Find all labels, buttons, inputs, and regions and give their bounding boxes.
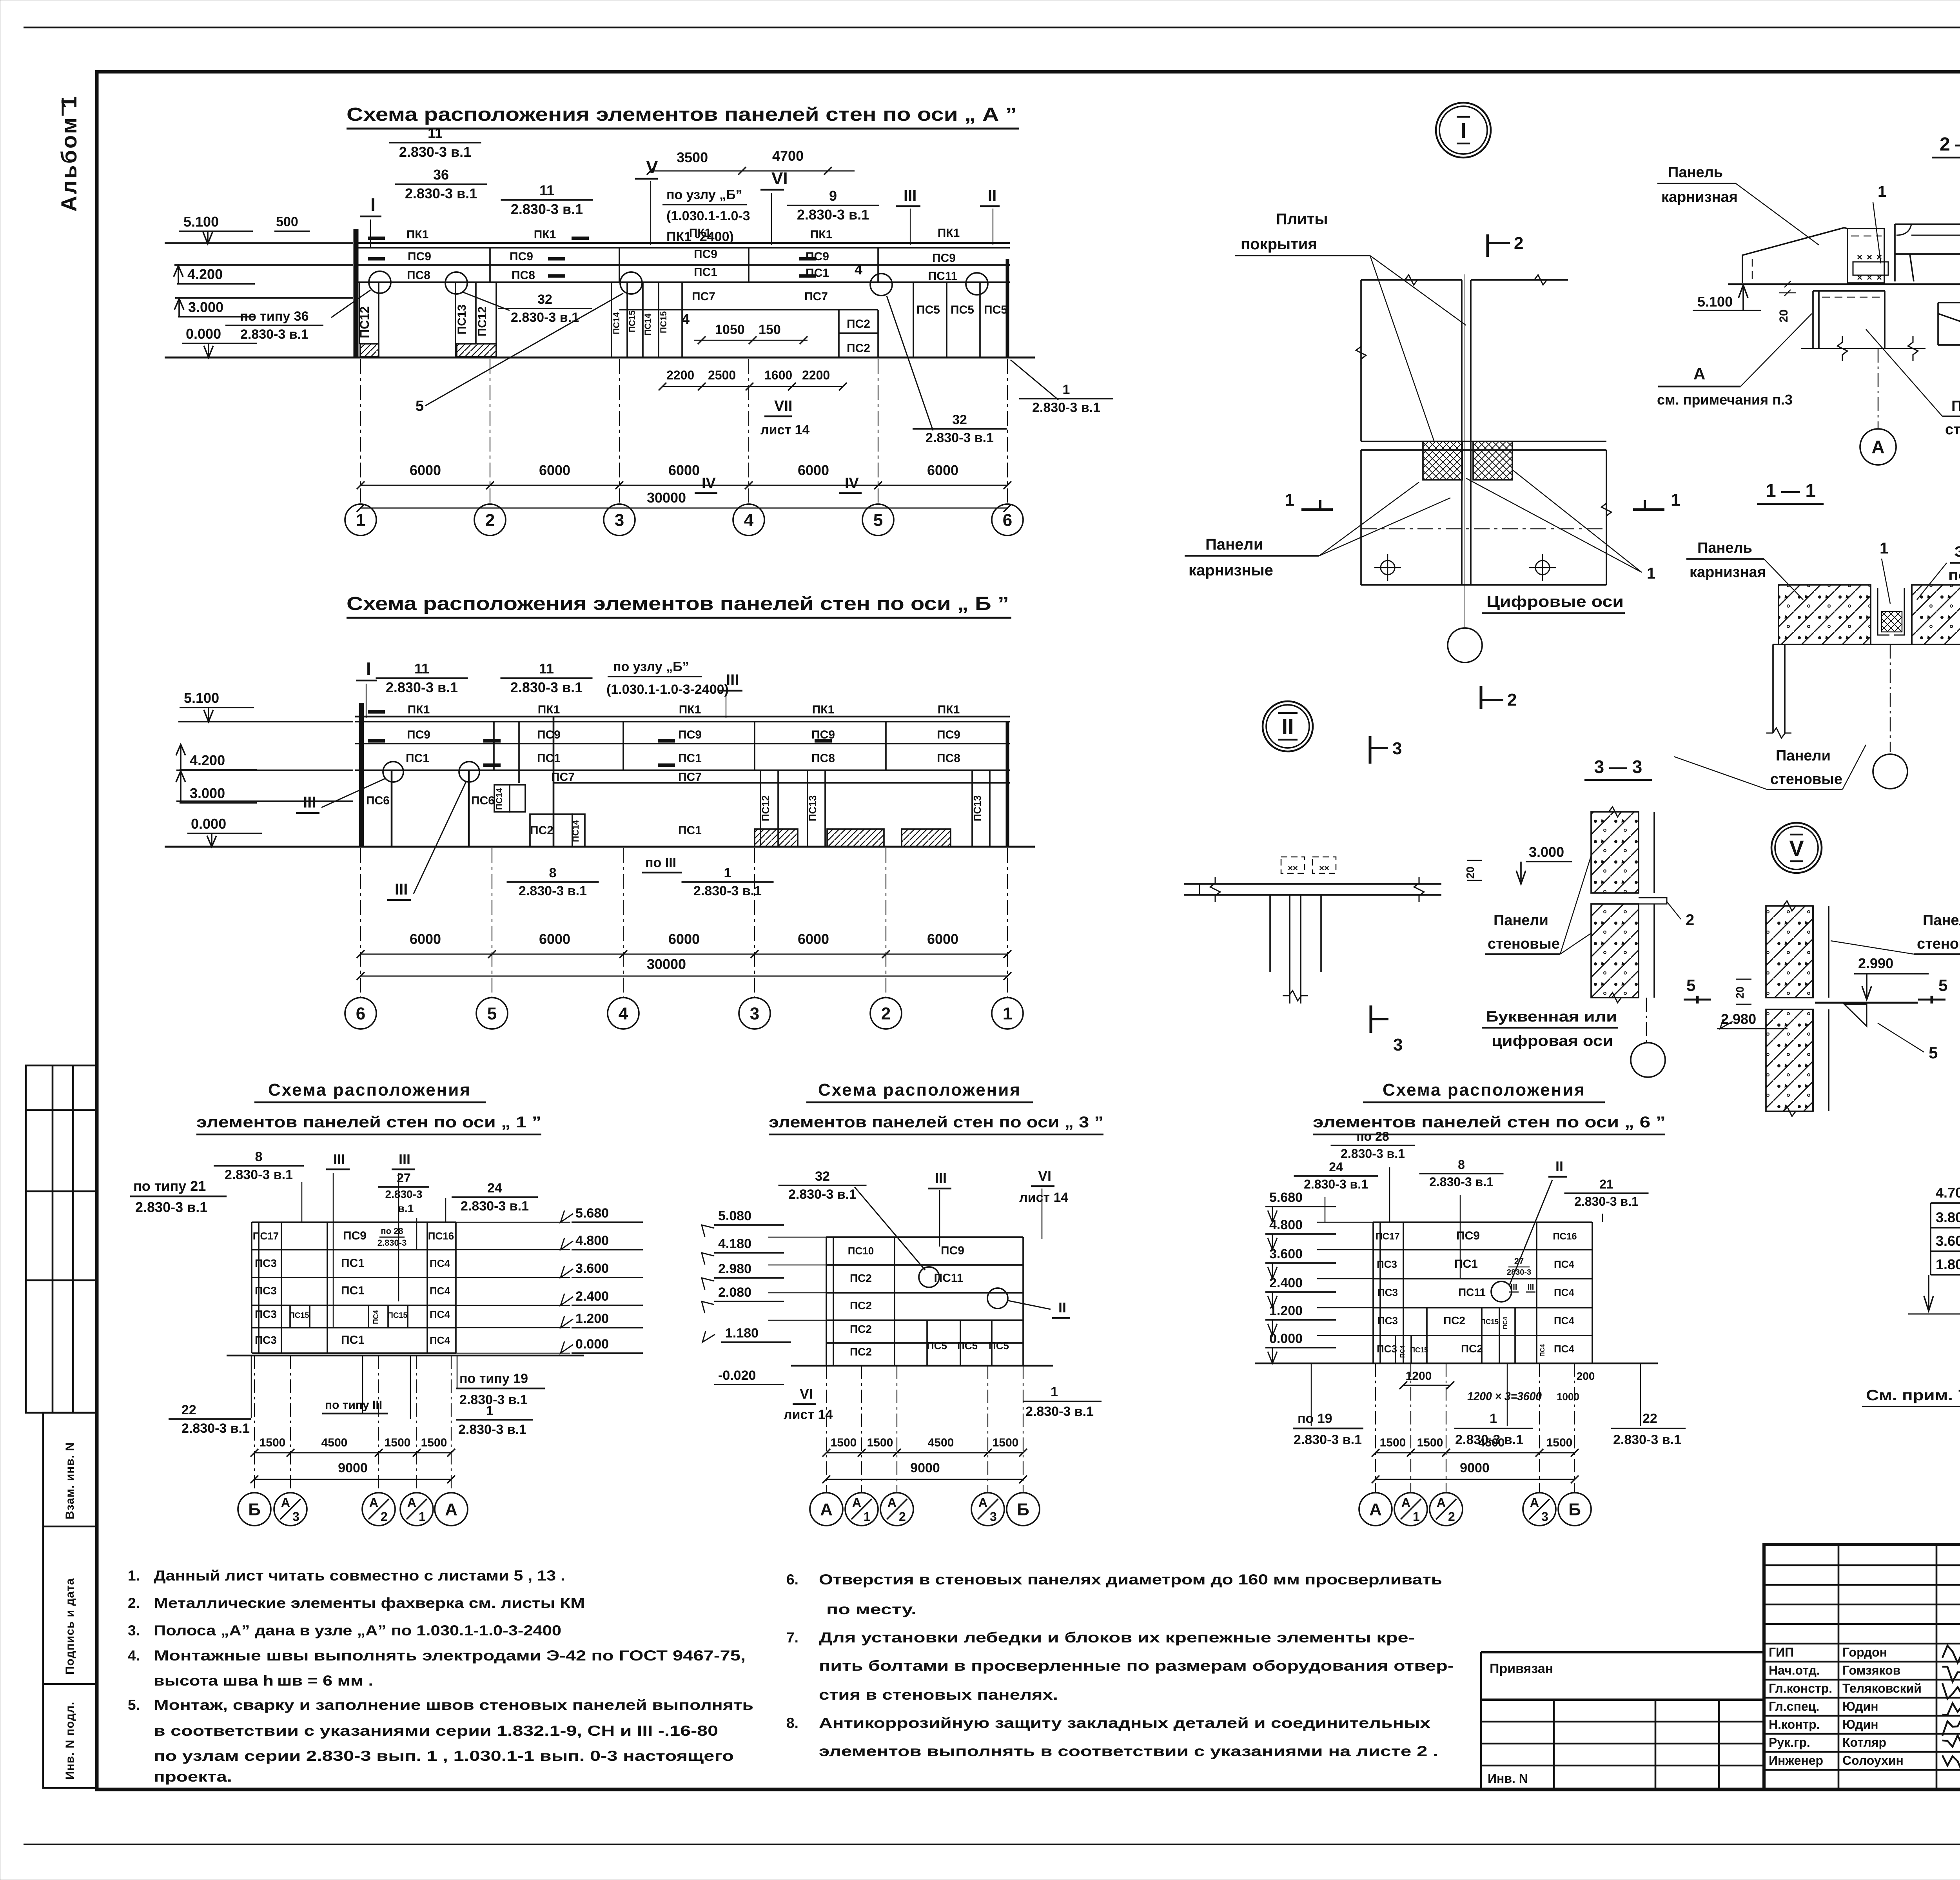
- svg-text:1: 1: [1671, 490, 1680, 510]
- svg-text:стеновые: стеновые: [1488, 936, 1560, 952]
- svg-text:1050: 1050: [715, 322, 745, 337]
- svg-text:ПС9: ПС9: [806, 250, 829, 263]
- svg-text:ПК1: ПК1: [938, 227, 960, 240]
- svg-text:4.800: 4.800: [575, 1233, 609, 1248]
- svg-text:ПС4: ПС4: [1539, 1344, 1546, 1357]
- svg-text:ПС2: ПС2: [850, 1299, 872, 1312]
- svg-text:×: ×: [1857, 252, 1862, 263]
- svg-text:ПС3: ПС3: [255, 1308, 277, 1320]
- svg-text:ПС7: ПС7: [551, 771, 575, 784]
- svg-text:32: 32: [537, 292, 552, 307]
- svg-text:высота шва h шв = 6 мм .: высота шва h шв = 6 мм .: [154, 1673, 373, 1689]
- svg-text:ПК1 -2400): ПК1 -2400): [666, 229, 734, 244]
- svg-text:Инженер: Инженер: [1769, 1753, 1823, 1767]
- svg-text:ПС12: ПС12: [760, 795, 771, 821]
- svg-text:по 28: по 28: [381, 1226, 403, 1236]
- svg-text:ПС12: ПС12: [358, 306, 372, 338]
- svg-text:ПС15: ПС15: [659, 311, 668, 333]
- svg-text:1.: 1.: [128, 1568, 140, 1584]
- svg-text:ПС12: ПС12: [476, 307, 489, 337]
- svg-text:8: 8: [1458, 1158, 1465, 1172]
- svg-text:А: А: [978, 1495, 987, 1510]
- svg-text:6000: 6000: [927, 462, 958, 478]
- svg-text:ПС5: ПС5: [951, 303, 974, 316]
- svg-text:II: II: [1281, 714, 1294, 739]
- svg-text:IV: IV: [702, 475, 716, 492]
- svg-text:ПС15: ПС15: [1410, 1346, 1428, 1354]
- svg-text:36: 36: [433, 167, 449, 183]
- svg-text:в соответствии с указаниями: в соответствии с указаниями серии 1.832.…: [154, 1723, 718, 1739]
- svg-text:ПС8: ПС8: [407, 269, 430, 282]
- svg-text:А: А: [281, 1495, 290, 1510]
- svg-text:VI: VI: [771, 169, 788, 188]
- svg-text:ПК1: ПК1: [679, 703, 701, 716]
- svg-text:24: 24: [487, 1181, 502, 1196]
- svg-text:ПС1: ПС1: [341, 1257, 365, 1270]
- svg-text:5.100: 5.100: [183, 214, 219, 230]
- svg-text:ПС17: ПС17: [253, 1230, 279, 1242]
- svg-text:1: 1: [1490, 1411, 1497, 1426]
- svg-text:Схема расположения: Схема расположения: [818, 1080, 1021, 1100]
- svg-text:ПС3: ПС3: [1377, 1343, 1397, 1355]
- svg-text:5.100: 5.100: [184, 690, 219, 706]
- svg-text:2.830-3 в.1: 2.830-3 в.1: [461, 1199, 529, 1214]
- svg-text:2.830-3 в.1: 2.830-3 в.1: [1025, 1404, 1094, 1419]
- svg-text:ПС7: ПС7: [692, 290, 715, 303]
- svg-text:стеновые: стеновые: [1770, 771, 1842, 788]
- svg-text:6000: 6000: [798, 462, 829, 478]
- svg-text:ПС4: ПС4: [430, 1285, 450, 1297]
- svg-text:см. примечания п.3: см. примечания п.3: [1657, 392, 1793, 408]
- svg-text:ПС11: ПС11: [1458, 1286, 1486, 1298]
- svg-text:Для установки лебедки и бл: Для установки лебедки и блоков их крепеж…: [819, 1630, 1415, 1646]
- svg-text:А: А: [852, 1495, 861, 1510]
- svg-text:2200: 2200: [666, 368, 694, 382]
- svg-text:ПС9: ПС9: [941, 1244, 964, 1257]
- svg-text:3: 3: [1393, 1035, 1403, 1054]
- svg-text:элементов панелей стен по оси: элементов панелей стен по оси „ 1 ”: [196, 1114, 541, 1131]
- svg-text:А: А: [369, 1495, 378, 1510]
- svg-text:1: 1: [1051, 1385, 1058, 1399]
- svg-text:2.830-3 в.1: 2.830-3 в.1: [458, 1422, 526, 1437]
- svg-text:2.830-3 в.1: 2.830-3 в.1: [135, 1199, 207, 1215]
- svg-text:11: 11: [414, 661, 429, 677]
- svg-text:4: 4: [744, 510, 754, 530]
- svg-text:ПС13: ПС13: [807, 795, 818, 821]
- svg-text:III: III: [904, 187, 916, 204]
- svg-text:2: 2: [1686, 911, 1694, 929]
- svg-text:ПС2: ПС2: [530, 824, 554, 837]
- svg-text:карнизная: карнизная: [1661, 189, 1738, 205]
- svg-text:Привязан: Привязан: [1490, 1661, 1553, 1676]
- svg-text:8: 8: [549, 866, 557, 880]
- svg-text:2.830-3 в.1: 2.830-3 в.1: [225, 1167, 293, 1182]
- svg-text:ПС2: ПС2: [850, 1272, 872, 1284]
- svg-text:3: 3: [990, 1510, 997, 1524]
- svg-text:11: 11: [539, 182, 554, 198]
- svg-text:2.830-3 в.1: 2.830-3 в.1: [240, 327, 309, 342]
- svg-text:по 19: по 19: [1298, 1411, 1332, 1426]
- svg-text:ПС3: ПС3: [255, 1257, 277, 1269]
- svg-text:2.830-3 в.1: 2.830-3 в.1: [181, 1421, 250, 1436]
- svg-text:II: II: [1555, 1158, 1563, 1174]
- svg-text:Юдин: Юдин: [1842, 1699, 1878, 1713]
- svg-text:30000: 30000: [647, 490, 686, 506]
- svg-text:II: II: [1058, 1299, 1066, 1316]
- svg-text:Схема расположения: Схема расположения: [268, 1080, 471, 1100]
- svg-text:элементов выполнять в соотв: элементов выполнять в соответствии с ука…: [819, 1743, 1438, 1759]
- svg-text:1: 1: [419, 1510, 426, 1524]
- svg-text:6000: 6000: [798, 931, 829, 947]
- svg-text:(1.030.1-1.0-3-2400): (1.030.1-1.0-3-2400): [606, 682, 729, 697]
- svg-text:ПС1: ПС1: [406, 752, 429, 765]
- svg-text:4.180: 4.180: [718, 1236, 751, 1251]
- svg-text:ПС17: ПС17: [1376, 1231, 1399, 1242]
- svg-text:Нач.отд.: Нач.отд.: [1769, 1663, 1820, 1677]
- svg-text:1500: 1500: [385, 1436, 411, 1449]
- svg-text:4.700: 4.700: [1936, 1185, 1960, 1201]
- svg-text:1: 1: [356, 510, 365, 530]
- svg-text:3: 3: [1392, 739, 1402, 758]
- svg-text:ПС8: ПС8: [512, 269, 535, 282]
- svg-text:5: 5: [1686, 976, 1695, 994]
- svg-text:11: 11: [539, 661, 554, 677]
- svg-text:ПК1: ПК1: [407, 228, 429, 241]
- svg-text:ПС2: ПС2: [1443, 1314, 1465, 1327]
- svg-text:ПС15: ПС15: [387, 1311, 407, 1320]
- svg-text:ПС9: ПС9: [937, 728, 960, 741]
- svg-text:ПС3: ПС3: [1377, 1315, 1398, 1327]
- svg-text:ПС8: ПС8: [937, 752, 960, 765]
- svg-text:ПС11: ПС11: [928, 270, 958, 283]
- svg-text:-0.020: -0.020: [718, 1368, 756, 1383]
- svg-text:4.200: 4.200: [190, 752, 225, 768]
- svg-text:по узлу „Б”: по узлу „Б”: [666, 187, 742, 202]
- svg-text:3.: 3.: [128, 1622, 140, 1639]
- svg-text:ПС14: ПС14: [643, 313, 653, 336]
- svg-text:ПС5: ПС5: [916, 303, 940, 316]
- svg-text:по III: по III: [645, 855, 676, 870]
- svg-text:6000: 6000: [539, 931, 570, 947]
- svg-text:5: 5: [487, 1004, 497, 1023]
- svg-text:2.830-3 в.1: 2.830-3 в.1: [926, 430, 994, 445]
- svg-text:ПС14: ПС14: [612, 312, 621, 334]
- svg-text:2: 2: [485, 510, 495, 530]
- svg-text:2: 2: [1514, 234, 1523, 253]
- svg-text:А: А: [1530, 1495, 1539, 1510]
- svg-text:3.800: 3.800: [1936, 1209, 1960, 1225]
- svg-text:1200 × 3=3600: 1200 × 3=3600: [1467, 1390, 1542, 1403]
- svg-text:2.: 2.: [128, 1595, 140, 1611]
- svg-text:по типу 21: по типу 21: [133, 1178, 206, 1194]
- svg-text:ПС6: ПС6: [471, 794, 495, 807]
- svg-text:4: 4: [855, 261, 862, 278]
- svg-text:2: 2: [1507, 690, 1517, 710]
- svg-text:0.000: 0.000: [575, 1337, 609, 1352]
- svg-text:Юдин: Юдин: [1842, 1717, 1878, 1731]
- svg-text:6: 6: [1003, 510, 1012, 530]
- svg-text:2.830-3 в.1: 2.830-3 в.1: [399, 144, 471, 160]
- svg-text:ПС4: ПС4: [1554, 1258, 1574, 1270]
- svg-text:2830-3: 2830-3: [1507, 1268, 1531, 1277]
- svg-text:2.830-3 в.1: 2.830-3 в.1: [1294, 1432, 1362, 1447]
- svg-text:ПС16: ПС16: [428, 1230, 454, 1242]
- svg-text:150: 150: [759, 322, 781, 337]
- svg-text:Цифровые оси: Цифровые оси: [1486, 593, 1624, 610]
- svg-text:1500: 1500: [1380, 1436, 1406, 1449]
- svg-text:Панель: Панель: [1668, 164, 1723, 181]
- svg-text:ПС1: ПС1: [806, 267, 829, 279]
- svg-text:Гл.спец.: Гл.спец.: [1769, 1699, 1819, 1713]
- svg-text:ПС16: ПС16: [1553, 1231, 1577, 1242]
- svg-text:III: III: [333, 1151, 345, 1167]
- svg-text:2.830-3 в.1: 2.830-3 в.1: [386, 679, 458, 695]
- svg-text:3.000: 3.000: [190, 785, 225, 801]
- svg-text:III: III: [395, 881, 408, 898]
- svg-text:ПС9: ПС9: [932, 252, 956, 265]
- svg-text:1: 1: [1063, 382, 1070, 397]
- svg-text:Инв. N: Инв. N: [1488, 1771, 1528, 1786]
- svg-text:Гордон: Гордон: [1842, 1645, 1887, 1659]
- svg-text:6.: 6.: [786, 1572, 799, 1588]
- svg-text:ПС4: ПС4: [1502, 1317, 1509, 1329]
- svg-text:Монтаж, сварку и заполнение: Монтаж, сварку и заполнение швов стеновы…: [154, 1697, 753, 1713]
- svg-text:Металлические элементы фахве: Металлические элементы фахверка см. лист…: [154, 1595, 585, 1611]
- svg-text:6000: 6000: [927, 931, 958, 947]
- svg-text:ПС1: ПС1: [537, 752, 561, 765]
- svg-text:4500: 4500: [1479, 1436, 1505, 1449]
- svg-text:ПС14: ПС14: [494, 788, 504, 810]
- svg-text:32: 32: [815, 1169, 830, 1184]
- svg-text:1: 1: [1413, 1510, 1420, 1524]
- svg-text:20: 20: [1777, 309, 1790, 322]
- svg-text:1500: 1500: [867, 1436, 893, 1449]
- svg-text:2 — 2: 2 — 2: [1940, 134, 1960, 155]
- svg-text:ПС13: ПС13: [456, 305, 468, 335]
- svg-text:по типу III: по типу III: [325, 1399, 382, 1412]
- svg-text:2.830-3 в.1: 2.830-3 в.1: [1341, 1147, 1405, 1161]
- svg-text:3 — 3: 3 — 3: [1594, 757, 1642, 777]
- svg-text:32: 32: [952, 412, 967, 427]
- svg-text:ПС7: ПС7: [678, 771, 702, 784]
- svg-text:1: 1: [864, 1510, 871, 1524]
- svg-text:3500: 3500: [677, 149, 708, 165]
- svg-text:ПС1: ПС1: [678, 752, 702, 765]
- svg-text:ПК1: ПК1: [810, 228, 833, 241]
- svg-text:ПС14: ПС14: [571, 820, 581, 842]
- svg-text:1.800: 1.800: [1936, 1256, 1960, 1272]
- svg-text:Теляковский: Теляковский: [1842, 1681, 1922, 1695]
- svg-text:в.1: в.1: [398, 1202, 414, 1214]
- svg-text:3: 3: [1541, 1510, 1548, 1524]
- svg-text:Залить бетоном марки М150: Залить бетоном марки М150: [1954, 544, 1960, 560]
- svg-text:2: 2: [899, 1510, 906, 1524]
- svg-text:2: 2: [881, 1004, 891, 1023]
- svg-text:Схема расположения элементов п: Схема расположения элементов панелей сте…: [347, 593, 1009, 614]
- svg-text:цифровая оси: цифровая оси: [1492, 1033, 1613, 1049]
- svg-text:I: I: [370, 194, 376, 215]
- svg-text:ПС1: ПС1: [341, 1334, 365, 1346]
- svg-text:Плиты: Плиты: [1276, 211, 1328, 228]
- svg-text:лист 14: лист 14: [760, 423, 809, 437]
- svg-text:лист 14: лист 14: [1019, 1190, 1068, 1205]
- svg-text:ПС15: ПС15: [1481, 1318, 1499, 1326]
- svg-text:×: ×: [1857, 272, 1862, 283]
- svg-text:Антикоррозийную защиту закла: Антикоррозийную защиту закладных деталей…: [819, 1715, 1431, 1731]
- svg-text:пить болтами в просверленны: пить болтами в просверленные по размерам…: [819, 1658, 1454, 1674]
- svg-text:Б: Б: [1568, 1500, 1581, 1519]
- svg-text:Подпись и дата: Подпись и дата: [64, 1578, 76, 1675]
- svg-text:Н.контр.: Н.контр.: [1769, 1717, 1820, 1731]
- svg-text:11: 11: [428, 125, 443, 141]
- svg-text:5.680: 5.680: [575, 1206, 609, 1221]
- svg-text:4.: 4.: [128, 1648, 140, 1664]
- svg-text:5.080: 5.080: [718, 1209, 751, 1223]
- svg-text:стеновые: стеновые: [1917, 936, 1960, 952]
- svg-text:А: А: [407, 1495, 416, 1510]
- svg-text:ПС1: ПС1: [1454, 1258, 1478, 1270]
- svg-text:ПС4: ПС4: [1554, 1287, 1574, 1298]
- svg-text:ПК1: ПК1: [938, 703, 960, 716]
- svg-text:ПС9: ПС9: [678, 728, 702, 741]
- svg-text:ПС4: ПС4: [430, 1258, 450, 1269]
- svg-text:ПК1: ПК1: [538, 703, 560, 716]
- svg-text:Данный лист читать совместно с: Данный лист читать совместно с листами 5…: [154, 1568, 565, 1584]
- svg-text:Панели: Панели: [1494, 912, 1548, 929]
- svg-text:ПС4: ПС4: [1554, 1315, 1574, 1327]
- svg-text:1500: 1500: [1546, 1436, 1573, 1449]
- svg-text:5: 5: [416, 398, 424, 414]
- svg-text:II: II: [988, 187, 996, 204]
- svg-text:ПС9: ПС9: [408, 250, 431, 263]
- svg-text:А: А: [887, 1495, 897, 1510]
- svg-text:ПС1: ПС1: [341, 1284, 365, 1297]
- svg-text:1: 1: [486, 1403, 494, 1418]
- svg-text:ПС9: ПС9: [510, 250, 533, 263]
- svg-text:ПС5: ПС5: [957, 1340, 978, 1352]
- svg-text:2.830-3 в.1: 2.830-3 в.1: [511, 201, 583, 217]
- svg-text:ПС4: ПС4: [1399, 1345, 1406, 1358]
- svg-text:А: А: [1401, 1495, 1410, 1510]
- svg-text:4: 4: [682, 311, 690, 327]
- svg-text:6000: 6000: [410, 931, 441, 947]
- svg-text:ПС7: ПС7: [804, 290, 828, 303]
- svg-text:4: 4: [619, 1004, 628, 1023]
- svg-text:по месту.: по месту.: [826, 1601, 916, 1617]
- svg-text:2.830-3 в.1: 2.830-3 в.1: [1429, 1175, 1494, 1189]
- svg-text:6000: 6000: [539, 462, 570, 478]
- svg-text:20: 20: [1464, 866, 1476, 878]
- svg-text:1500: 1500: [1417, 1436, 1443, 1449]
- svg-text:лист 14: лист 14: [784, 1407, 833, 1422]
- svg-text:2.830-3 в.1: 2.830-3 в.1: [1574, 1194, 1639, 1209]
- svg-text:0.000: 0.000: [186, 326, 221, 342]
- svg-text:4500: 4500: [321, 1436, 348, 1449]
- svg-text:Инв. N подл.: Инв. N подл.: [64, 1702, 76, 1780]
- svg-text:4.200: 4.200: [187, 266, 223, 282]
- svg-text:ПС9: ПС9: [343, 1229, 367, 1242]
- svg-text:А: А: [820, 1500, 833, 1519]
- svg-text:2.830-3 в.1: 2.830-3 в.1: [797, 207, 869, 223]
- svg-text:1 — 1: 1 — 1: [1766, 481, 1816, 501]
- svg-text:9000: 9000: [338, 1461, 368, 1475]
- svg-text:по 28: по 28: [1356, 1129, 1389, 1143]
- svg-text:××: ××: [1319, 863, 1329, 873]
- svg-text:22: 22: [181, 1403, 196, 1417]
- svg-text:6000: 6000: [410, 462, 441, 478]
- svg-text:3: 3: [615, 510, 624, 530]
- svg-text:5: 5: [1929, 1043, 1938, 1062]
- svg-text:3: 3: [292, 1510, 299, 1524]
- svg-text:I: I: [1460, 118, 1466, 143]
- svg-text:Панели: Панели: [1205, 536, 1263, 553]
- svg-text:2.830-3 в.1: 2.830-3 в.1: [1613, 1432, 1681, 1447]
- svg-text:6: 6: [356, 1004, 365, 1023]
- svg-text:ПС8: ПС8: [811, 752, 835, 765]
- svg-text:Б: Б: [1017, 1500, 1029, 1519]
- svg-text:А: А: [1369, 1500, 1382, 1519]
- svg-text:2.830-3 в.1: 2.830-3 в.1: [405, 185, 477, 201]
- svg-text:4.800: 4.800: [1269, 1218, 1303, 1232]
- svg-text:×: ×: [1867, 252, 1872, 263]
- svg-text:III: III: [726, 671, 739, 689]
- svg-text:5: 5: [873, 510, 883, 530]
- svg-text:стия в стеновых панелях.: стия в стеновых панелях.: [819, 1687, 1058, 1703]
- svg-text:по узлам серии 2.830-3 вып: по узлам серии 2.830-3 вып. 1 , 1.030.1-…: [154, 1748, 734, 1764]
- svg-text:ГИП: ГИП: [1769, 1645, 1794, 1659]
- svg-text:1000: 1000: [1557, 1391, 1579, 1403]
- svg-text:6000: 6000: [668, 462, 700, 478]
- svg-text:1: 1: [1003, 1004, 1012, 1023]
- svg-text:0.000: 0.000: [191, 816, 226, 832]
- svg-text:ПК1: ПК1: [812, 703, 835, 716]
- svg-text:А: А: [1871, 437, 1884, 457]
- svg-text:3.600: 3.600: [575, 1261, 609, 1276]
- svg-text:1500: 1500: [421, 1436, 447, 1449]
- svg-text:ПС3: ПС3: [1377, 1258, 1397, 1270]
- svg-text:элементов панелей стен по оси: элементов панелей стен по оси „ 6 ”: [1313, 1114, 1666, 1131]
- svg-text:А: А: [1693, 365, 1705, 383]
- svg-text:2.400: 2.400: [575, 1289, 609, 1304]
- svg-text:××: ××: [1288, 863, 1298, 873]
- svg-text:Схема расположения: Схема расположения: [1383, 1080, 1586, 1100]
- svg-text:5: 5: [1938, 976, 1947, 994]
- svg-text:Гл.констр.: Гл.констр.: [1769, 1681, 1832, 1695]
- svg-text:Альбом 1: Альбом 1: [56, 94, 81, 212]
- svg-text:ПС2: ПС2: [850, 1346, 872, 1358]
- svg-text:2.400: 2.400: [1269, 1276, 1303, 1290]
- svg-text:2.830-3: 2.830-3: [385, 1188, 423, 1200]
- svg-text:покрытия: покрытия: [1241, 236, 1317, 253]
- svg-text:1: 1: [1647, 565, 1655, 582]
- svg-text:Панели: Панели: [1776, 748, 1831, 764]
- svg-text:I: I: [366, 659, 371, 679]
- svg-text:6000: 6000: [668, 931, 700, 947]
- svg-text:ПС3: ПС3: [255, 1334, 277, 1346]
- svg-text:2200: 2200: [802, 368, 830, 382]
- svg-text:×: ×: [1877, 272, 1882, 283]
- svg-text:22: 22: [1642, 1411, 1657, 1426]
- svg-text:Взам. инв. N: Взам. инв. N: [64, 1442, 76, 1519]
- svg-text:500: 500: [276, 214, 298, 229]
- svg-text:А: А: [445, 1500, 457, 1519]
- svg-text:V: V: [1789, 836, 1804, 860]
- svg-text:III: III: [1528, 1283, 1534, 1292]
- svg-text:3: 3: [750, 1004, 759, 1023]
- svg-text:Панель: Панель: [1951, 398, 1960, 414]
- svg-text:1: 1: [1878, 183, 1886, 200]
- svg-text:2: 2: [1448, 1510, 1455, 1524]
